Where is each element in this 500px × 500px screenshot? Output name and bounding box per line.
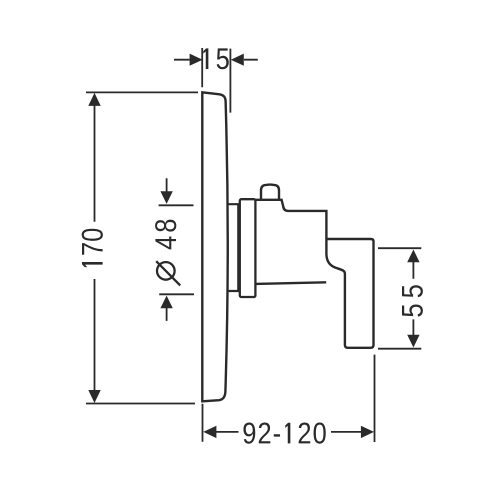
dim O48: arrow tails — [166, 178, 168, 321]
arrow O48 down (above, pointing down) — [160, 191, 172, 204]
dim 170: reference leader lines — [86, 92, 198, 403]
dim 170: dimension line (broken for text) — [94, 99, 96, 397]
back flange (Ø48 collar) — [227, 204, 238, 291]
valve body and lever handle outline — [255, 200, 373, 348]
dim 15: extension lines — [202, 48, 230, 113]
diameter symbol slash — [156, 261, 180, 285]
arrow 55 up — [407, 250, 419, 263]
arrow 15 left — [190, 54, 203, 66]
arrow 170 up — [88, 93, 100, 106]
label O48 (rotated) — [155, 220, 176, 250]
escutcheon plate outline — [202, 92, 227, 401]
dim 92-120: tails — [216, 431, 362, 433]
body bottom edge — [255, 282, 326, 284]
arrow O48 up (below, pointing up) — [160, 296, 172, 309]
sleeve Ø54 — [240, 199, 256, 297]
dim 15: tails — [174, 59, 258, 61]
label 92-120 — [243, 423, 325, 444]
dim 55: extension lines — [378, 248, 421, 349]
label 170 (rotated) — [82, 229, 103, 267]
label 15 — [203, 48, 229, 69]
arrow 170 down — [88, 390, 100, 403]
dim 55: dimension line (broken for text) — [412, 261, 414, 336]
dim O48: extension lines — [159, 205, 194, 294]
arrow 15 right — [231, 54, 244, 66]
knob on top of body — [261, 185, 279, 200]
arrow 92-120 left — [203, 426, 216, 438]
dim 92-120: extension lines — [203, 355, 375, 442]
arrow 92-120 right — [361, 426, 374, 438]
diameter symbol circle — [157, 262, 175, 280]
arrow 55 down — [407, 335, 419, 348]
label 55 (rotated) — [402, 285, 423, 316]
